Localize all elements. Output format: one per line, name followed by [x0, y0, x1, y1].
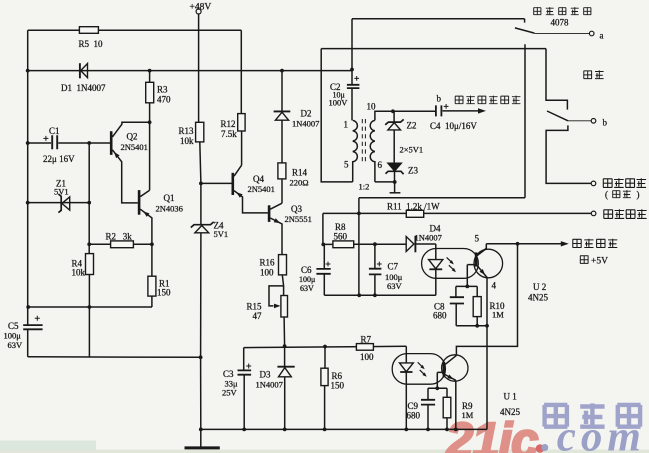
matrix arrowhead	[478, 108, 486, 113]
wire R4 column	[88, 244, 90, 357]
svg-text:63V: 63V	[8, 340, 24, 350]
U1 phototransistor emitter arrow	[447, 375, 453, 380]
terminal ring positive	[591, 211, 596, 216]
svg-text:R5 10: R5 10	[79, 39, 104, 49]
svg-text:R16: R16	[260, 258, 276, 268]
wire Q3 emitter to R16	[270, 218, 282, 255]
wire U2 emitter drop pin4	[477, 266, 487, 430]
wire C9 column	[427, 388, 429, 429]
wire top-left rail (+48V top rail)	[28, 29, 242, 31]
svg-text:U 1: U 1	[504, 392, 517, 402]
capacitor C9	[421, 400, 435, 405]
terminal +48V	[196, 9, 201, 14]
wire C7 column	[374, 244, 376, 295]
capacitor C3	[238, 370, 252, 374]
resistor R2	[111, 241, 134, 248]
resistor R13	[196, 122, 204, 142]
svg-text:C5: C5	[8, 321, 19, 331]
wire top ring rail	[352, 19, 525, 23]
resistor R8	[333, 241, 354, 248]
resistor R4	[86, 254, 94, 275]
svg-text:1M: 1M	[462, 410, 474, 420]
svg-text:R12: R12	[221, 119, 236, 129]
wire R6 column	[324, 347, 326, 430]
resistor R14	[278, 163, 286, 179]
wire secondary bottom lead	[375, 181, 395, 183]
transformer T1 core	[362, 119, 365, 164]
wire R12 riser	[240, 30, 242, 165]
ground	[185, 446, 220, 449]
label to-matrix-circuit	[455, 96, 520, 105]
wire C1 row	[28, 142, 111, 144]
svg-text:D2: D2	[301, 109, 312, 119]
svg-text:.com: .com	[541, 414, 641, 453]
svg-text:2N4036: 2N4036	[156, 204, 183, 214]
svg-text:a: a	[600, 31, 604, 41]
svg-text:470: 470	[157, 95, 171, 105]
wire R15 to junction	[283, 317, 286, 346]
Z3 end crossbar	[390, 192, 401, 194]
svg-text:): )	[637, 190, 640, 200]
C4 plus sign	[444, 104, 449, 109]
svg-text:C1: C1	[49, 126, 60, 136]
svg-text:R8: R8	[335, 222, 346, 232]
svg-text:C7: C7	[388, 262, 399, 272]
transformer T1 primary winding	[353, 120, 358, 181]
transistor Q1 base bar	[138, 190, 141, 215]
capacitor C8	[450, 297, 464, 303]
wire y347 row (C3 D3 R6 R7 row)	[244, 346, 407, 347]
svg-text:100: 100	[360, 352, 374, 362]
svg-text:4N25: 4N25	[528, 293, 548, 303]
U1 phototransistor emitter link	[444, 374, 456, 380]
svg-text:C9: C9	[408, 401, 419, 411]
svg-text:C4 10μ/16V: C4 10μ/16V	[430, 121, 477, 131]
U2 phototransistor emitter arrow	[480, 269, 486, 275]
optocoupler U1 transistor circle	[442, 355, 468, 381]
transistor Q3 base bar	[268, 205, 271, 222]
wire R15 wiper	[269, 286, 284, 306]
svg-text:(: (	[605, 190, 608, 200]
transistor Q1 emitter arrow	[143, 211, 149, 217]
U1 led	[400, 363, 414, 372]
wire U2 base network	[456, 265, 477, 287]
svg-text:10: 10	[367, 102, 377, 112]
wire Q1 emitter drop	[140, 209, 152, 244]
resistor R10	[473, 297, 481, 317]
wire R8 drop from rail	[322, 213, 324, 244]
wire Z1 row	[28, 202, 89, 204]
wire bottom rail	[201, 428, 487, 430]
wire y307 row	[28, 306, 152, 308]
wire U1 led cathode drop	[405, 372, 407, 430]
svg-text:1N4007: 1N4007	[256, 380, 283, 390]
transistor Q3 emitter arrow	[274, 218, 281, 223]
wire C6 column	[323, 244, 325, 295]
svg-text:2N5551: 2N5551	[285, 214, 312, 224]
svg-text:7.5k: 7.5k	[221, 129, 237, 139]
svg-text:R11 1.2k /1W: R11 1.2k /1W	[387, 201, 440, 211]
terminal b	[591, 119, 596, 124]
svg-text:4: 4	[492, 281, 497, 291]
resistor R11	[406, 210, 423, 217]
label ring negative	[603, 178, 646, 188]
svg-text:R6: R6	[332, 371, 343, 381]
svg-text:2N5401: 2N5401	[121, 142, 148, 152]
svg-text:D1 1N4007: D1 1N4007	[61, 83, 106, 93]
svg-text:Q3: Q3	[291, 204, 302, 214]
svg-text:1M: 1M	[492, 310, 504, 320]
wire R10 column	[476, 286, 478, 325]
resistor R3	[146, 82, 154, 103]
zener Z1	[58, 194, 61, 213]
label external resistor	[573, 239, 618, 248]
svg-text:5V1: 5V1	[214, 229, 229, 239]
wire Z2 Z3 column	[393, 111, 396, 192]
+5V arrowhead	[561, 241, 569, 246]
C2 plus sign	[354, 76, 359, 81]
wire Q3 collector link	[270, 203, 282, 209]
capacitor C7	[369, 269, 382, 275]
optocoupler U2 body	[422, 249, 479, 279]
wire Q2 emitter to Q1 base	[112, 150, 137, 203]
svg-text:6: 6	[378, 160, 383, 170]
wire U2 collector stub	[477, 244, 486, 255]
wire pin4 bottom row	[456, 325, 487, 327]
svg-text:560: 560	[334, 232, 348, 242]
resistor R1	[148, 276, 156, 296]
resistor R6	[321, 368, 328, 385]
wire R1 column	[151, 244, 153, 307]
svg-text:1N4007: 1N4007	[292, 119, 319, 129]
svg-text:1N4007: 1N4007	[415, 233, 442, 243]
optocoupler U2 transistor circle	[474, 249, 503, 278]
resistor R7	[356, 344, 373, 351]
svg-text:R7: R7	[361, 335, 372, 345]
wire C2 column	[351, 19, 353, 121]
wire secondary top lead	[375, 111, 436, 120]
svg-text:D3: D3	[260, 370, 271, 380]
wire C3 column	[243, 348, 246, 430]
svg-text:100V: 100V	[329, 98, 349, 108]
diode D2	[274, 110, 291, 112]
svg-text:25V: 25V	[222, 388, 238, 398]
wire x89 column	[88, 143, 90, 244]
wire U1 led anode riser	[405, 346, 407, 363]
svg-text:100: 100	[260, 268, 274, 278]
svg-text:+5V: +5V	[591, 257, 608, 267]
label ringing relay circuit	[534, 7, 592, 15]
resistor R12	[238, 114, 245, 131]
hook switch blade	[547, 111, 568, 121]
transistor Q4 base bar	[232, 173, 235, 195]
label to +5V	[580, 255, 588, 264]
U2 phototransistor base bar	[475, 252, 478, 266]
wire D4 row	[375, 243, 436, 245]
wire C6 C7 ground row	[324, 294, 436, 296]
C5 plus sign	[35, 316, 40, 321]
wire transformer bottom row to right riser	[359, 44, 525, 198]
wire U1 emitter drop	[455, 380, 457, 429]
svg-text:22μ 16V: 22μ 16V	[43, 154, 75, 164]
transistor Q2 emitter arrow	[114, 152, 120, 158]
svg-text:63V: 63V	[300, 284, 314, 293]
terminal ring negative	[591, 181, 596, 186]
svg-text:10k: 10k	[180, 136, 194, 146]
wire Q1 collector link	[140, 190, 149, 196]
zener Z3	[386, 171, 404, 174]
svg-text:Q2: Q2	[127, 132, 138, 142]
svg-text:680: 680	[433, 311, 447, 321]
wire Q4 emitter to Q3 base	[234, 191, 268, 213]
capacitor C4	[436, 105, 442, 116]
svg-text:R2 3k: R2 3k	[106, 232, 133, 242]
wire to terminal b	[568, 120, 591, 122]
wire R3 column	[149, 71, 151, 191]
svg-text:100μ: 100μ	[299, 275, 315, 284]
svg-text:+48V: +48V	[190, 3, 212, 13]
watermark dianziwang characters	[544, 403, 641, 427]
wire D3 column	[284, 346, 286, 429]
capacitor C6	[316, 269, 330, 274]
svg-text:2×5V1: 2×5V1	[400, 145, 424, 155]
resistor R9	[443, 397, 451, 418]
scan edge tint bottom strip	[0, 450, 649, 453]
label telephone	[584, 70, 604, 79]
wire U2 led cathode drop	[435, 269, 437, 295]
R15 wiper arrowhead	[274, 304, 281, 309]
svg-text:Z3: Z3	[408, 166, 418, 176]
capacitor C5	[23, 325, 42, 329]
junction dots	[26, 69, 30, 73]
diode D4	[414, 236, 416, 253]
svg-text:Q4: Q4	[253, 174, 264, 184]
wire x359 column	[358, 198, 360, 295]
svg-text:2N5401: 2N5401	[248, 184, 275, 194]
wire bottom-left rail	[28, 356, 201, 359]
C1 plus sign	[43, 136, 48, 141]
svg-text:10k: 10k	[72, 268, 86, 278]
terminal a	[589, 31, 594, 36]
resistor R5	[79, 27, 98, 34]
svg-text:21ic: 21ic	[445, 414, 538, 453]
U1 phototransistor collector link	[444, 355, 457, 365]
wire R8 row	[323, 243, 375, 245]
wire C4 to matrix arrow	[443, 110, 479, 112]
transformer T1 secondary winding	[370, 120, 375, 181]
optocoupler U1 body	[392, 354, 445, 385]
wire Q2 collector link	[112, 122, 149, 137]
wire +5V output row	[486, 243, 561, 245]
zener Z2	[385, 119, 404, 124]
capacitor C1	[52, 135, 57, 149]
svg-text:4N25: 4N25	[500, 407, 520, 417]
svg-text:R15: R15	[247, 302, 263, 312]
scan edge tint bottom-left	[0, 441, 96, 453]
wire left vertical rail	[27, 30, 29, 357]
wire hook lower contact to ring negative	[546, 125, 591, 183]
wire R13 to Z4 to ground column	[200, 142, 201, 447]
svg-text:b: b	[437, 94, 442, 104]
label ring positive	[604, 209, 647, 219]
U1 led arrows	[418, 362, 426, 375]
svg-text:5V1: 5V1	[54, 187, 69, 197]
potentiometer R15	[281, 296, 288, 318]
svg-text:1: 1	[344, 120, 349, 130]
U2 led arrows	[447, 257, 455, 271]
diode D3	[277, 366, 294, 368]
wire C8 column	[455, 286, 457, 325]
wire Q4 base lead	[201, 182, 232, 184]
watermark red dot	[536, 444, 545, 453]
diode D1	[79, 63, 81, 78]
wire ringing-current rail (R11 row)	[323, 212, 592, 214]
svg-text:47: 47	[253, 311, 263, 321]
wire R16 to R15	[282, 275, 283, 296]
U2 phototransistor collector link	[476, 249, 486, 257]
svg-text:63V: 63V	[387, 281, 403, 291]
wire U2 led anode riser	[435, 244, 437, 260]
svg-text:R14: R14	[292, 168, 308, 178]
svg-text:150: 150	[331, 381, 345, 391]
svg-text:4078: 4078	[551, 18, 570, 28]
capacitor C2	[347, 85, 360, 88]
svg-text:Q1: Q1	[164, 193, 175, 203]
wire hook top loop	[321, 49, 567, 110]
svg-text:Z2: Z2	[407, 121, 417, 131]
svg-text:150: 150	[157, 288, 171, 298]
svg-text:100μ: 100μ	[4, 331, 22, 341]
svg-text:R3: R3	[157, 85, 168, 95]
wire R2 row	[89, 243, 152, 245]
transistor Q2 base bar	[110, 131, 113, 155]
U1 phototransistor base bar	[443, 362, 446, 377]
switch a blade	[515, 28, 535, 33]
wire U1 base network	[428, 372, 447, 388]
C7 plus sign	[377, 262, 382, 267]
transistor Q4 emitter arrow	[236, 192, 242, 198]
svg-text:U 2: U 2	[533, 282, 546, 292]
wire R9 column	[446, 388, 448, 429]
svg-text:C3: C3	[223, 369, 234, 379]
svg-text:680: 680	[407, 411, 421, 421]
svg-text:R13: R13	[179, 126, 195, 136]
resistor R16	[279, 255, 287, 275]
wire to terminal a	[534, 32, 589, 34]
wire Q4 collector link	[234, 165, 242, 176]
C6 plus sign	[326, 262, 331, 267]
wire +48V feed	[198, 14, 200, 122]
wire primary return (left side of loop)	[321, 49, 353, 182]
zener Z4	[191, 222, 214, 228]
svg-text:5: 5	[344, 160, 349, 170]
wire U1 collector to +5V line	[456, 244, 517, 356]
U2 led	[429, 260, 443, 269]
svg-text:1:2: 1:2	[359, 182, 370, 192]
wire D2 R14 column	[281, 71, 283, 204]
svg-text:220Ω: 220Ω	[290, 178, 309, 188]
C3 plus sign	[246, 364, 251, 369]
wire D1 rail	[28, 70, 352, 72]
svg-text:b: b	[603, 118, 608, 128]
svg-text:5: 5	[475, 234, 480, 244]
svg-text:C6: C6	[301, 265, 312, 275]
